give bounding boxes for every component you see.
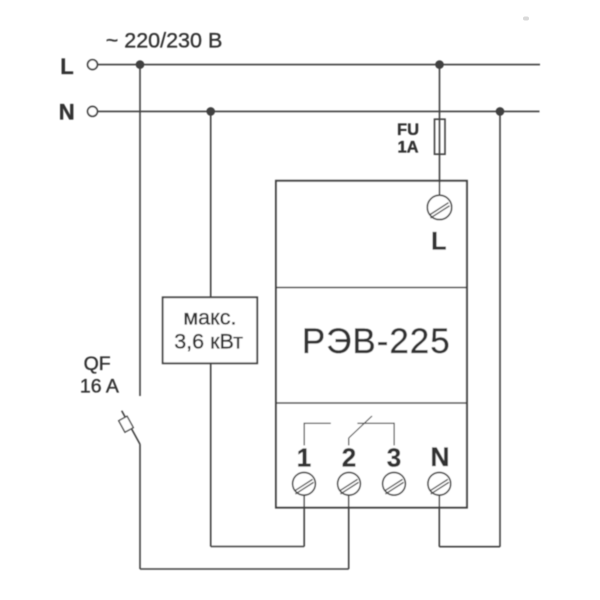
svg-text:N: N [59, 99, 75, 124]
svg-text:1: 1 [297, 442, 311, 472]
svg-text:QF: QF [84, 353, 111, 375]
svg-text:3,6 кВт: 3,6 кВт [174, 330, 243, 354]
svg-text:L: L [431, 228, 446, 256]
svg-text:1A: 1A [397, 139, 418, 157]
svg-text:РЭВ-225: РЭВ-225 [302, 322, 451, 361]
svg-text:N: N [430, 442, 449, 472]
svg-text:~ 220/230 В: ~ 220/230 В [106, 29, 223, 53]
svg-text:L: L [60, 54, 73, 79]
svg-text:3: 3 [387, 442, 401, 472]
svg-text:16 A: 16 A [80, 376, 119, 398]
svg-text:2: 2 [342, 442, 356, 472]
svg-text:макс.: макс. [183, 306, 236, 330]
svg-text:FU: FU [397, 121, 419, 139]
